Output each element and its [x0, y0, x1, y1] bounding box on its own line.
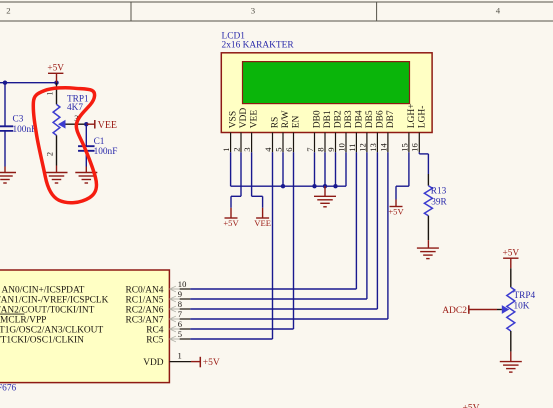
svg-text:2x16 KARAKTER: 2x16 KARAKTER — [222, 41, 295, 51]
svg-text:VEE: VEE — [98, 120, 117, 131]
svg-text:7: 7 — [178, 309, 183, 319]
svg-text:+5V: +5V — [223, 218, 239, 228]
svg-text:100nF: 100nF — [13, 125, 37, 135]
svg-text:13: 13 — [368, 143, 378, 152]
svg-text:AN0/CIN+/ICSPDAT: AN0/CIN+/ICSPDAT — [2, 285, 85, 295]
svg-text:12: 12 — [357, 143, 367, 152]
svg-text:+5V: +5V — [388, 207, 404, 217]
svg-text:+5V: +5V — [463, 403, 480, 408]
svg-text:VDD: VDD — [143, 358, 164, 368]
svg-text:EN: EN — [292, 115, 302, 128]
svg-text:6: 6 — [284, 147, 294, 152]
svg-text:39R: 39R — [431, 197, 447, 207]
svg-text:DB1: DB1 — [323, 110, 333, 128]
svg-text:10: 10 — [336, 143, 346, 152]
svg-text:6: 6 — [178, 319, 183, 329]
svg-text:C1: C1 — [94, 137, 105, 147]
svg-text:RC3/AN7: RC3/AN7 — [125, 315, 163, 325]
svg-text:9: 9 — [178, 289, 182, 299]
svg-text:/AN1/CIN-/VREF/ICSPCLK: /AN1/CIN-/VREF/ICSPCLK — [0, 295, 109, 305]
svg-text:RC1/AN5: RC1/AN5 — [125, 295, 163, 305]
svg-text:7: 7 — [305, 147, 315, 152]
svg-text:R/W: R/W — [281, 110, 291, 128]
svg-text:C3: C3 — [13, 115, 24, 125]
svg-text:11: 11 — [347, 144, 357, 152]
svg-text:15: 15 — [399, 143, 409, 152]
svg-text:100nF: 100nF — [94, 147, 118, 157]
svg-text:VEE: VEE — [254, 218, 271, 228]
svg-text:+5V: +5V — [47, 64, 64, 74]
svg-text:VDD: VDD — [239, 108, 249, 129]
svg-text:14: 14 — [378, 143, 388, 152]
svg-text:3: 3 — [251, 6, 256, 16]
svg-text:LGH-: LGH- — [417, 106, 427, 129]
svg-text:8: 8 — [315, 148, 325, 152]
svg-text:4: 4 — [496, 6, 501, 16]
svg-text:DB2: DB2 — [334, 110, 344, 128]
svg-text:VEE: VEE — [250, 110, 260, 129]
svg-text:10K: 10K — [514, 301, 530, 311]
svg-text:/T1CKI/OSC1/CLKIN: /T1CKI/OSC1/CLKIN — [0, 335, 84, 345]
svg-text:3: 3 — [242, 148, 252, 152]
svg-text:4: 4 — [263, 147, 273, 152]
svg-text:1: 1 — [45, 91, 54, 95]
svg-text:DB4: DB4 — [354, 110, 364, 128]
svg-text:F676: F676 — [0, 384, 16, 394]
svg-text:RS: RS — [271, 117, 281, 129]
svg-text:1: 1 — [178, 351, 182, 361]
svg-text:RC5: RC5 — [146, 335, 164, 345]
svg-text:2: 2 — [6, 6, 10, 16]
svg-text:VSS: VSS — [229, 111, 239, 128]
svg-text:LGH+: LGH+ — [407, 103, 417, 128]
svg-text:10: 10 — [178, 279, 187, 289]
svg-text:DB5: DB5 — [365, 110, 375, 128]
svg-text:+5V: +5V — [203, 358, 220, 368]
svg-text:RC4: RC4 — [146, 325, 164, 335]
svg-text:RC2/AN6: RC2/AN6 — [125, 305, 163, 315]
svg-text:+5V: +5V — [502, 249, 519, 259]
svg-text:R13: R13 — [431, 186, 447, 196]
svg-text:4K7: 4K7 — [67, 103, 83, 113]
svg-text:2: 2 — [45, 152, 54, 156]
svg-text:16: 16 — [410, 143, 420, 152]
svg-text:1: 1 — [221, 148, 231, 152]
svg-text:9: 9 — [326, 148, 336, 152]
svg-text:5: 5 — [273, 148, 283, 152]
svg-text:DB7: DB7 — [386, 110, 396, 128]
svg-text:TRP4: TRP4 — [514, 291, 536, 301]
svg-text:8: 8 — [178, 299, 182, 309]
svg-text:DB0: DB0 — [313, 110, 323, 128]
svg-text:5: 5 — [178, 329, 182, 339]
svg-text:MCLR/VPP: MCLR/VPP — [0, 315, 46, 325]
svg-text:RC0/AN4: RC0/AN4 — [125, 285, 163, 295]
svg-text:2: 2 — [231, 148, 241, 152]
svg-text:DB3: DB3 — [344, 110, 354, 128]
svg-text:DB6: DB6 — [375, 110, 385, 128]
svg-text:ADC2: ADC2 — [442, 306, 467, 316]
svg-text:T1G/OSC2/AN3/CLKOUT: T1G/OSC2/AN3/CLKOUT — [0, 325, 103, 335]
